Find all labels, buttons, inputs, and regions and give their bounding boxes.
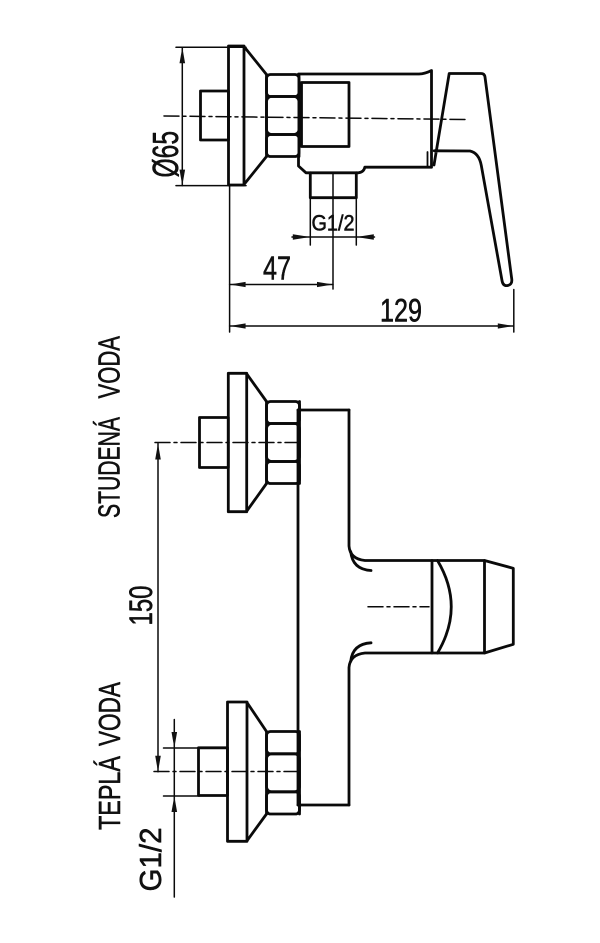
hot wall escutcheon bbox=[228, 702, 248, 841]
centerline (faucet axis, side view) bbox=[164, 116, 466, 120]
escutcheon cone lower slant bbox=[244, 157, 267, 185]
transition spur upper bbox=[351, 552, 371, 571]
dimension Ø65 : upper arrowhead bbox=[180, 47, 186, 63]
svg-text:150: 150 bbox=[123, 586, 159, 626]
wall escutcheon (side view) bbox=[229, 46, 245, 185]
svg-text:VODA: VODA bbox=[92, 336, 127, 399]
svg-text:TEPLÁ: TEPLÁ bbox=[92, 756, 127, 830]
dimension 150 : dimension line bbox=[157, 444, 159, 772]
dimension Ø65 : lower arrowhead bbox=[180, 170, 186, 186]
svg-text:VODA: VODA bbox=[92, 682, 127, 746]
hot hex nut bbox=[267, 732, 300, 815]
dimension G1/2 (hot) : upper extension tick bbox=[164, 747, 200, 749]
svg-text:G1/2: G1/2 bbox=[312, 211, 355, 236]
dimension 129 : dimension line bbox=[230, 325, 514, 327]
svg-text:STUDENÁ: STUDENÁ bbox=[92, 417, 127, 518]
cartridge axis centerline bbox=[368, 606, 429, 608]
handle lever (side view) bbox=[434, 74, 512, 286]
dimension 150 : bottom arrowhead bbox=[155, 756, 161, 772]
svg-text:47: 47 bbox=[263, 251, 291, 288]
dimension G1/2 (hot) : lower extension tick bbox=[164, 795, 200, 797]
dimension 129 : right extension line (lever tip) bbox=[513, 290, 515, 333]
faucet body (front view) left edge bbox=[297, 410, 300, 805]
dimension 129 : right arrowhead bbox=[498, 323, 514, 328]
dimension 47 : right arrowhead bbox=[317, 282, 333, 287]
svg-text:129: 129 bbox=[380, 293, 422, 329]
body edge mark near handle bbox=[427, 152, 429, 166]
cartridge cap cylinder bbox=[432, 561, 485, 654]
dimension G1/2 (outlet) : right arrowhead bbox=[356, 234, 374, 240]
dimension 47 : dimension line bbox=[230, 284, 333, 286]
escutcheon cone upper slant bbox=[244, 47, 267, 75]
dimension Ø65 : bottom extension line bbox=[176, 185, 246, 187]
faucet body (side view) bbox=[299, 71, 432, 173]
cartridge square (side view) bbox=[302, 83, 350, 147]
dimension G1/2 (outlet) : left arrowhead bbox=[293, 234, 311, 240]
cold wall escutcheon bbox=[228, 373, 246, 511]
outlet centerline bbox=[332, 174, 334, 289]
dimension Ø65 : dimension line bbox=[181, 47, 183, 185]
faucet body top edge bbox=[298, 409, 349, 412]
dimension G1/2 (outlet) : right extension line bbox=[355, 199, 357, 245]
cold escutcheon cone upper slant bbox=[247, 374, 267, 402]
faucet body right edge lower segment bbox=[349, 653, 432, 805]
shower outlet (side view) bbox=[310, 173, 356, 198]
supply pipe stub (side view) bbox=[201, 91, 229, 140]
hot supply pipe stub bbox=[199, 748, 228, 796]
cold hex nut bbox=[267, 402, 300, 484]
cold water centerline bbox=[155, 442, 301, 444]
dimension G1/2 (outlet) : dimension line bbox=[292, 236, 375, 238]
hot escutcheon cone lower slant bbox=[247, 814, 267, 841]
hot water centerline bbox=[154, 771, 303, 773]
faucet body bottom edge bbox=[298, 804, 349, 807]
dimension G1/2 (hot) : upper dimension line bbox=[173, 720, 175, 797]
faucet body right edge upper segment bbox=[349, 410, 432, 561]
cold supply pipe stub bbox=[200, 418, 229, 468]
cartridge cap bulge arc bbox=[438, 561, 452, 654]
dimension G1/2 (hot) : lower dimension line bbox=[173, 796, 175, 897]
dimension Ø65 : top extension line bbox=[176, 46, 246, 48]
svg-text:Ø65: Ø65 bbox=[145, 131, 186, 178]
dimension G1/2 (hot) : lower arrowhead bbox=[172, 796, 178, 812]
dimension 129 : left arrowhead bbox=[230, 323, 246, 328]
transition spur lower bbox=[351, 643, 371, 662]
svg-text:G1/2: G1/2 bbox=[134, 828, 168, 892]
dimension G1/2 (outlet) : left extension line bbox=[309, 199, 311, 245]
dimension 150 : top arrowhead bbox=[155, 444, 161, 460]
dimension 129 : left extension line (wall plane) bbox=[229, 186, 231, 332]
hex nut (side view) bbox=[267, 75, 300, 157]
cold escutcheon cone lower slant bbox=[247, 484, 267, 512]
hot escutcheon cone upper slant bbox=[247, 703, 267, 732]
dimension G1/2 (hot) : upper arrowhead bbox=[172, 732, 178, 748]
cap end cone bbox=[485, 561, 514, 654]
dimension 47 : left arrowhead bbox=[230, 282, 246, 287]
